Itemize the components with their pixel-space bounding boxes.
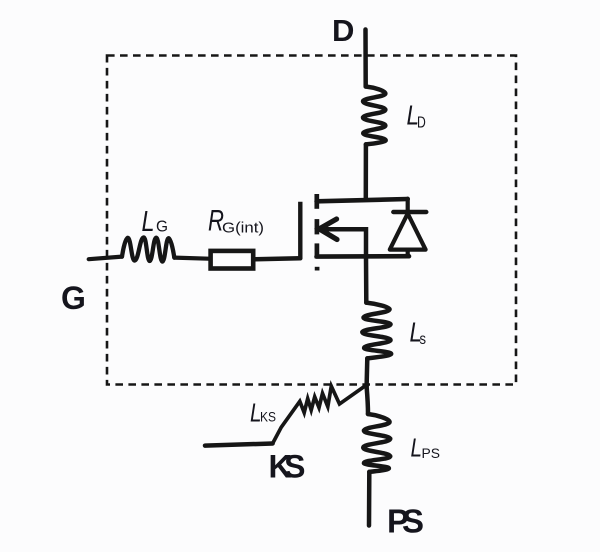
svg-text:PS: PS: [422, 445, 441, 461]
svg-text:G: G: [156, 219, 168, 236]
wire: PS terminal lead: [367, 472, 372, 526]
body diode: [390, 199, 427, 257]
inductor LKS (zigzag) and node branch: [273, 385, 367, 444]
svg-text:s: s: [420, 331, 427, 348]
inductor LD: [363, 87, 386, 145]
wire: MOSFET source to LS: [364, 257, 369, 303]
wire: LD to MOSFET drain: [364, 144, 369, 199]
wire: KS terminal lead: [205, 444, 273, 446]
wire: node to LPS: [367, 387, 368, 415]
svg-text:KS: KS: [260, 409, 276, 425]
svg-text:L: L: [142, 206, 155, 238]
wire: gate terminal G: [89, 257, 122, 260]
wire: LS to Kelvin node: [364, 358, 369, 386]
inductor LS: [362, 303, 391, 359]
wire: drain terminal D down to LD: [363, 30, 368, 87]
svg-text:PS: PS: [387, 503, 424, 540]
inductor LG: [122, 237, 174, 261]
dashed module boundary box: [107, 56, 516, 385]
svg-text:KS: KS: [269, 449, 306, 485]
svg-text:L: L: [411, 433, 423, 463]
svg-text:D: D: [332, 13, 354, 48]
wire: RGint to gate plate: [255, 258, 300, 259]
svg-text:G: G: [61, 280, 86, 316]
resistor RGint: [211, 251, 254, 269]
inductor LPS: [363, 414, 390, 472]
svg-text:G(int): G(int): [222, 219, 264, 236]
transistor Q1 (power MOSFET): [300, 194, 409, 271]
svg-text:D: D: [417, 114, 426, 131]
wire: LG to RGint: [174, 258, 208, 259]
